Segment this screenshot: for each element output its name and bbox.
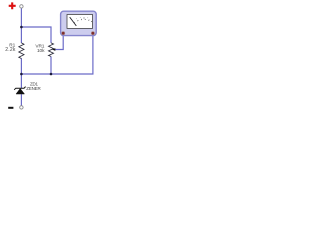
- svg-text:ZENER: ZENER: [26, 86, 41, 91]
- node B junction dot: [20, 73, 23, 76]
- potentiometer VR1 wiper arrowhead: [52, 48, 55, 51]
- svg-text:2.2k: 2.2k: [5, 47, 16, 53]
- meter M1 scale digit specks: [76, 17, 88, 19]
- terminal pin circle (top): [20, 5, 23, 8]
- node C junction dot: [50, 73, 53, 76]
- terminal pin circle (bottom): [20, 106, 23, 109]
- terminal marker - (negative): [8, 107, 13, 109]
- wire: node A horizontal to VR1 top: [21, 27, 51, 43]
- wire: zener ZD1 to bottom terminal: [20, 94, 22, 106]
- wire: node B down to zener ZD1: [20, 74, 22, 88]
- wire: top terminal down to resistor R1: [20, 8, 22, 43]
- meter M1 body: [61, 11, 97, 35]
- svg-text:10k: 10k: [37, 48, 45, 54]
- resistor R1 zigzag: [19, 43, 24, 59]
- zener diode ZD1 anode triangle: [16, 89, 25, 95]
- potentiometer VR1 zigzag: [49, 43, 54, 57]
- meter M1 face: [67, 15, 93, 29]
- meter M1 right terminal: [91, 32, 94, 35]
- meter M1 left terminal: [62, 32, 65, 35]
- wire: bottom rail node B to meter right terminal: [21, 34, 93, 74]
- terminal marker + (positive): [9, 2, 16, 9]
- meter M1 scale ticks: [74, 19, 92, 23]
- wire: VR1 wiper to meter left terminal: [55, 34, 63, 50]
- meter M1 needle: [70, 17, 77, 26]
- zener diode ZD1 cathode bar with bent ends: [14, 87, 25, 90]
- wire: VR1 bottom to node C: [50, 56, 52, 74]
- wire: resistor R1 bottom to node B: [20, 58, 22, 74]
- node A junction dot: [20, 26, 23, 29]
